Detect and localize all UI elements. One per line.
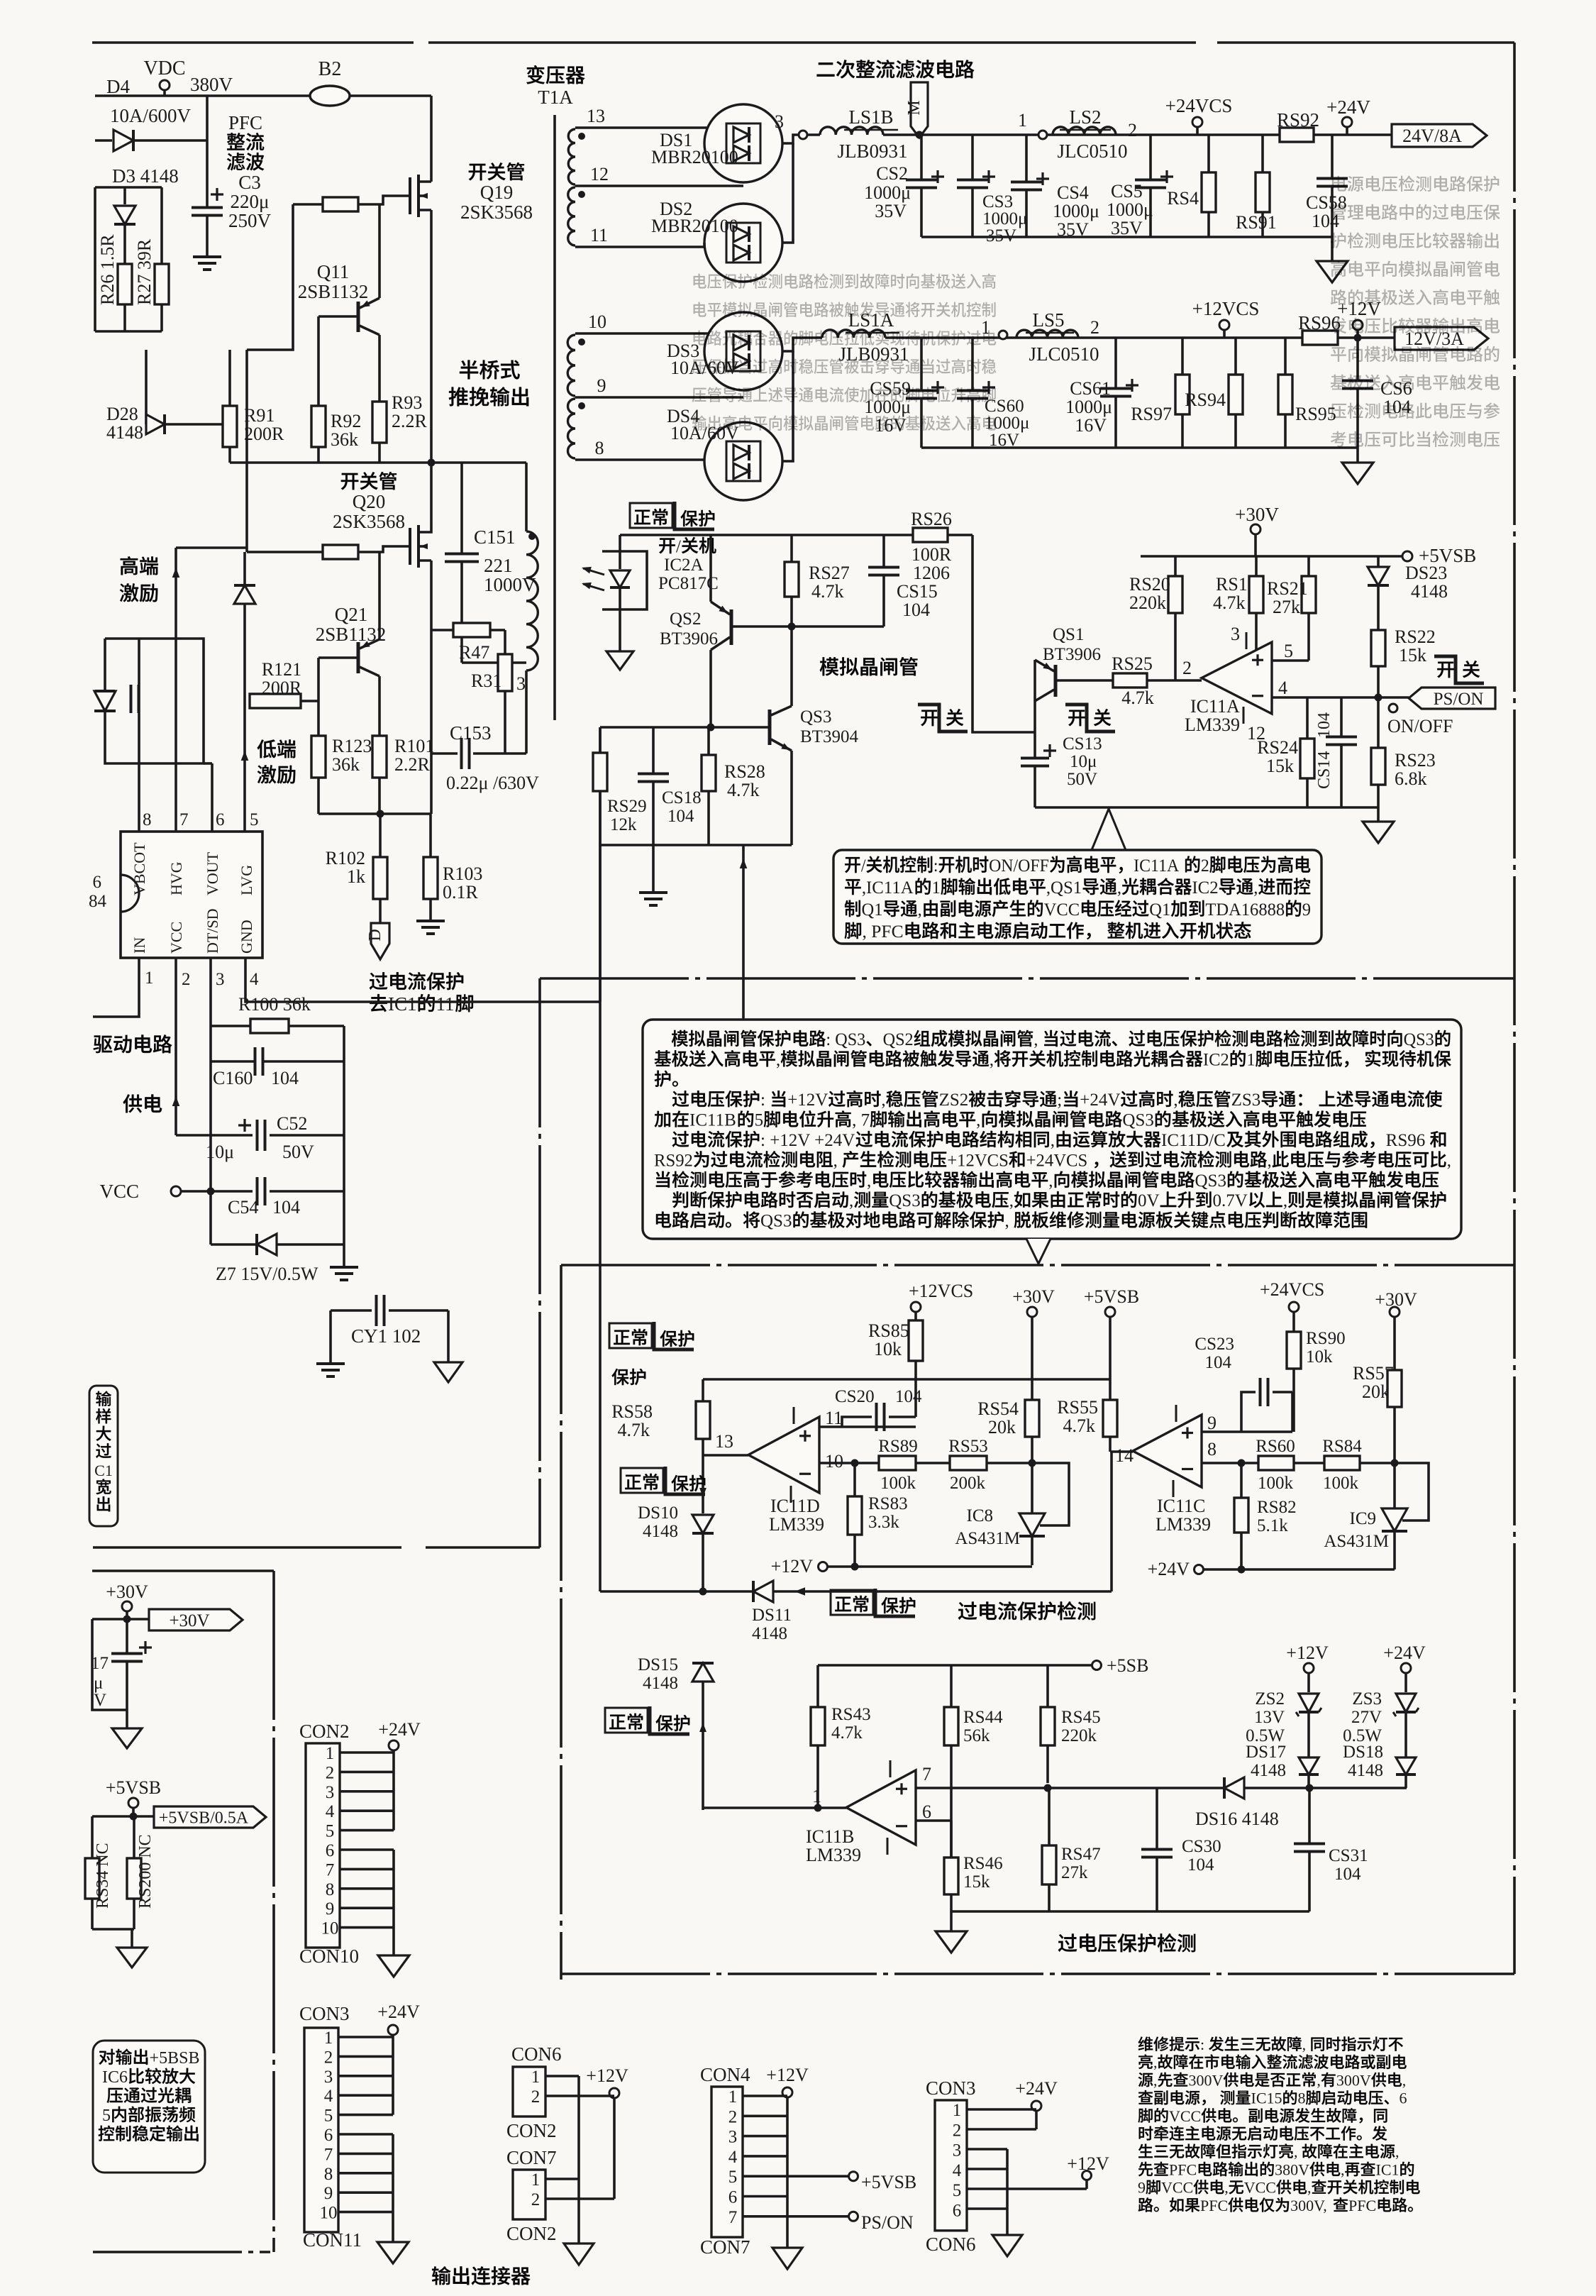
svg-text:RS90: RS90 [1306,1329,1346,1348]
svg-text:IC8: IC8 [967,1506,994,1525]
wire 12V rail [885,336,1302,339]
wire emitter bottoms [318,812,431,815]
svg-text:3: 3 [326,1783,335,1802]
svg-text:35V: 35V [875,201,907,221]
svg-text:5: 5 [102,2107,111,2125]
ground overvoltage row [950,1911,953,1931]
svg-text:27V: 27V [1351,1708,1382,1727]
svg-text:3: 3 [324,2068,333,2087]
svg-text:2: 2 [1201,856,1209,876]
flag PS/ON [1409,688,1495,709]
svg-text:R31: R31 [471,670,501,691]
svg-text:D4: D4 [106,76,130,97]
wire Q21 base [317,658,320,736]
ground CON6 bus [564,2243,594,2265]
terminal +30V 2 [1012,1286,1055,1307]
svg-text:5.1k: 5.1k [1257,1516,1288,1535]
svg-text:Q19: Q19 [480,182,514,203]
svg-text:RS1: RS1 [1216,574,1248,595]
svg-text:2: 2 [531,2087,541,2107]
svg-text:;: ; [1057,1091,1062,1110]
svg-text:104: 104 [667,807,694,826]
marker normal-protect 4 [831,1590,873,1615]
svg-text:TDA16888: TDA16888 [1205,900,1285,920]
svg-text:IC11C: IC11C [1157,1496,1205,1516]
svg-text:PFC: PFC [1348,2197,1376,2214]
svg-text:C52: C52 [277,1113,307,1134]
svg-text:4.7k: 4.7k [618,1420,650,1440]
inductor LS1A [822,330,885,338]
svg-text:1206: 1206 [913,563,950,583]
diode D28 [145,350,148,424]
svg-text:CS14: CS14 [1315,751,1334,789]
svg-text:9: 9 [324,2184,333,2203]
svg-text:2SK3568: 2SK3568 [460,202,533,223]
svg-text:1: 1 [953,2101,962,2120]
resistor RS24 15k [1306,697,1309,739]
svg-text:VCC: VCC [167,922,185,954]
resistor RS44 56k [950,1665,953,1707]
svg-text:JLB0931: JLB0931 [838,343,909,365]
wire pin11 with CS20 104 [819,1425,916,1428]
svg-text:VDC: VDC [143,57,185,79]
label D3 4148 [112,165,179,187]
svg-text:MBR20100: MBR20100 [651,147,738,167]
node Q19 source junction [430,219,433,523]
transistor Q20 2SK3568 MOSFET [419,523,431,532]
svg-text:10: 10 [320,2204,338,2223]
svg-text:PC817C: PC817C [658,574,719,593]
note box on/off control [1092,809,1126,850]
svg-text:6: 6 [1400,2090,1407,2107]
note repair hints [1138,2036,1403,2053]
marker normal-protect 5 [605,1708,648,1733]
svg-text:4.7k: 4.7k [1063,1415,1096,1436]
svg-text:PS/ON: PS/ON [861,2212,914,2233]
ghost bleedthrough right [692,176,1500,448]
node 1 terminal 24V [1018,110,1027,131]
svg-text:QS3: QS3 [800,707,831,727]
svg-text:24V/8A: 24V/8A [1402,126,1462,146]
ground 12V rail [1356,448,1359,463]
svg-text:Z7 15V/0.5W: Z7 15V/0.5W [216,1264,318,1284]
svg-text:100k: 100k [880,1474,916,1493]
svg-text:9: 9 [1138,2179,1146,2197]
svg-text:2.2R: 2.2R [392,411,428,431]
svg-text:,: , [833,1151,838,1170]
svg-text:IC11D/C: IC11D/C [1161,1131,1226,1150]
svg-text:250V: 250V [228,210,272,231]
svg-text:,: , [976,1111,980,1130]
wire right collector bus [343,1026,345,1266]
inductor LS1B [807,133,820,136]
wire protect rail [703,1378,1110,1381]
ground under R103 [416,920,445,922]
svg-text:104: 104 [1205,1353,1232,1372]
svg-text:VBCOT: VBCOT [131,842,148,895]
connector CON3/CON11 [299,2003,350,2024]
svg-text:4: 4 [326,1802,335,1821]
wire CON6 CON7 buses [545,2075,579,2077]
svg-text:5: 5 [250,810,259,829]
comparator IC11D LM339 [748,1417,819,1493]
svg-text:+12V: +12V [766,2065,809,2085]
capacitor C160 104 [211,1060,255,1063]
svg-text:104: 104 [272,1197,300,1218]
diode DS18 4148 [1396,1757,1416,1775]
svg-text:2: 2 [1090,317,1099,338]
capacitor CS14 104 [1340,697,1343,736]
diode D4 [95,139,112,142]
pin name DT/SD [204,908,221,954]
pin name VOUT [204,851,221,895]
svg-text:AS431M: AS431M [1324,1532,1389,1551]
pin 2 label [182,970,191,989]
terminal +12V [1337,298,1381,319]
svg-text:+12V: +12V [1286,1643,1329,1663]
svg-text:+30V: +30V [1235,504,1279,525]
capacitor CS13 [1033,757,1036,760]
wire trigger arrow to note box [742,845,745,1020]
svg-text:CON6: CON6 [511,2043,562,2065]
svg-text:CS23: CS23 [1195,1335,1234,1354]
svg-text:R91: R91 [244,405,275,426]
connector CON7 small [506,2147,557,2168]
svg-text:+5VSB: +5VSB [1084,1286,1139,1307]
resistor R27 [160,187,163,264]
resistor RS85 10k [909,1320,923,1361]
wire pin6 VOUT [204,762,212,765]
label high-side drive [121,556,158,575]
pin name LVG [238,865,255,895]
svg-text:380V: 380V [190,74,233,95]
svg-text:,: , [1402,2071,1407,2089]
svg-text:+5BSB: +5BSB [150,2049,200,2068]
svg-text:LS2: LS2 [1069,106,1101,128]
resistor RS82 5.1k [1240,1463,1243,1498]
svg-text:6: 6 [324,2126,333,2145]
capacitor in loop [130,685,133,713]
svg-text:LM339: LM339 [1156,1514,1211,1535]
svg-text:DS10: DS10 [638,1503,678,1523]
svg-text:CS3: CS3 [982,192,1013,211]
svg-text:+24V: +24V [1148,1559,1190,1579]
transistor Q11 2SB1132 [357,302,360,332]
svg-text:3: 3 [1231,624,1240,644]
svg-text:CS31: CS31 [1329,1846,1368,1865]
svg-text:1: 1 [531,2068,541,2087]
terminal +5VSB 2 [1084,1286,1139,1307]
svg-text:50V: 50V [282,1142,314,1162]
svg-text:36k: 36k [332,754,360,775]
svg-text:,: , [1224,2179,1229,2197]
wire +5SB row [818,1664,1092,1667]
svg-text:CS2: CS2 [876,163,908,184]
svg-text:104: 104 [1187,1855,1214,1875]
switch waveform icon 2 [1065,705,1115,732]
connector CON3/CON6 6pin [926,2077,976,2099]
shunt regulator IC8 AS431M [1029,1459,1036,1467]
svg-text:CON11: CON11 [303,2229,362,2251]
svg-text:Q1: Q1 [862,900,883,920]
svg-text:4148: 4148 [1251,1761,1286,1780]
svg-text:1000μ: 1000μ [1065,397,1112,417]
svg-text:1: 1 [931,878,940,898]
svg-text::: : [760,1091,765,1110]
svg-text:RS97: RS97 [1131,404,1172,424]
svg-text:+24V: +24V [377,2002,420,2022]
svg-text:15k: 15k [1266,756,1294,776]
terminal +5VSB 3 [106,1777,161,1798]
svg-text:Q11: Q11 [317,261,350,282]
svg-text:8: 8 [326,1880,335,1899]
wire CON3 lower pins to ground [967,2148,1007,2151]
wire QS3 line down to protection [599,845,602,1591]
svg-text:10μ: 10μ [206,1142,234,1162]
svg-text:,: , [1447,1151,1451,1170]
resistor RS90 10k [1260,1279,1324,1300]
svg-text:9: 9 [1207,1413,1217,1433]
svg-text:,: , [867,1171,871,1191]
svg-text:4.7k: 4.7k [1213,592,1246,613]
svg-text:2SK3568: 2SK3568 [333,511,405,532]
svg-text:,: , [1153,2053,1158,2071]
svg-text:DS17: DS17 [1246,1743,1286,1762]
wire pin4 riser to QS3 wire [599,727,602,1002]
wire bottom of gate resistors [230,461,431,464]
svg-text:RS26: RS26 [911,509,952,529]
ground CON3 6pin [992,2235,1022,2256]
svg-text:RS29: RS29 [607,797,647,816]
svg-text:,: , [1048,1171,1053,1191]
svg-text:CON6: CON6 [926,2234,976,2255]
pin 1 label [145,968,154,988]
capacitor CY1 102 [331,1309,372,1312]
resistor R100 36k [238,994,311,1015]
svg-text:,: , [881,1091,885,1110]
svg-text:/: / [861,856,866,876]
svg-text:RS24: RS24 [1257,737,1298,758]
connector CON2/CON10 [299,1721,350,1742]
svg-text:D: D [366,929,384,941]
switch waveform icon 1 [918,705,968,732]
svg-text:IC11B: IC11B [806,1826,854,1847]
svg-text:HVG: HVG [167,861,185,895]
secondary winding 12-11 [575,184,638,187]
node 3 terminal [799,131,807,139]
svg-text:VOUT: VOUT [204,851,221,895]
wire RS34 bottom row [92,1928,134,1931]
svg-text:MBR20100: MBR20100 [651,216,738,236]
wire DS outputs to node 3 [782,135,798,143]
svg-text:QS3: QS3 [1195,1171,1226,1191]
svg-text:6: 6 [93,873,102,892]
svg-text:104: 104 [902,600,930,620]
svg-text:10μ: 10μ [1070,752,1097,771]
svg-text:2: 2 [1182,658,1192,678]
svg-text:DS11: DS11 [752,1606,792,1625]
capacitor CS31 104 [1308,1788,1311,1843]
svg-text:RS21: RS21 [1267,578,1308,599]
wire pin7 HVG up with arrow [174,548,177,832]
svg-text:ZS2: ZS2 [939,1091,969,1110]
pin 4 label [250,970,259,989]
wire QS3 bottom rail [600,844,792,846]
svg-text:8: 8 [143,810,152,829]
pin name IN [131,937,148,954]
svg-text:7: 7 [179,810,189,829]
svg-text:380V: 380V [1275,2160,1309,2178]
svg-text:2: 2 [953,2121,962,2140]
svg-text:CON2: CON2 [506,2120,557,2141]
svg-text:+24V: +24V [1080,1091,1120,1110]
wire pin10 row [819,1462,855,1464]
wire Q11 base to R92 [317,316,320,406]
svg-text:1: 1 [326,1744,335,1763]
label overvoltage protect detect [1058,1933,1195,1952]
svg-text:M: M [905,100,924,115]
svg-text:5: 5 [755,1111,764,1130]
svg-text:,: , [1009,1191,1014,1210]
svg-text:6: 6 [953,2202,962,2221]
svg-text:10: 10 [321,1919,339,1938]
svg-text:10A/600V: 10A/600V [110,105,192,126]
svg-text:RS92: RS92 [1277,109,1319,131]
diode DS10 4148 [692,1515,714,1533]
svg-text:VCC: VCC [1161,2179,1193,2197]
svg-text:R102: R102 [326,848,365,868]
svg-text:,: , [990,1050,994,1069]
svg-text:/: / [676,537,681,556]
svg-text:3: 3 [728,2128,738,2147]
svg-text:4148: 4148 [106,422,143,443]
comparator IC11A LM339 [1202,642,1272,714]
label D4 [106,76,130,97]
svg-text:6: 6 [326,1841,335,1860]
svg-text:D28: D28 [106,404,138,424]
resistor RS84 100k [1324,1456,1360,1470]
svg-text:,: , [1294,2143,1298,2160]
capacitor CS15 104 [882,535,885,567]
svg-text:4.7k: 4.7k [1121,688,1154,708]
svg-text:3: 3 [775,111,784,132]
flag +30V [149,1609,243,1630]
svg-text:104: 104 [895,1387,922,1406]
wire C151 bottom [462,661,526,664]
svg-text:5: 5 [728,2168,738,2187]
wire pin8 row [1202,1462,1241,1464]
svg-text:PFC: PFC [228,112,262,133]
svg-text:RS53: RS53 [948,1437,988,1456]
svg-text:,: , [849,1191,853,1210]
node 1 terminal 12V [981,317,990,338]
wire pin1 to drive circuit [93,958,139,1017]
svg-text:QS2: QS2 [883,1030,914,1049]
thyristor clamp in loop [94,691,116,711]
svg-text:Q1: Q1 [1149,900,1170,920]
svg-text:CON3: CON3 [299,2003,350,2024]
wire D3 loop [95,186,162,189]
shunt regulator IC9 AS431M [1391,1459,1399,1467]
svg-text:BT3906: BT3906 [660,629,718,648]
svg-text:10k: 10k [1306,1347,1333,1367]
capacitor C151 [460,463,463,553]
terminal +5VSB [1402,551,1412,561]
svg-text:RS25: RS25 [1112,653,1153,674]
svg-text:VCC: VCC [99,1181,139,1202]
svg-text:R121: R121 [262,659,301,680]
svg-text:CS4: CS4 [1057,182,1089,203]
svg-text:10: 10 [825,1451,843,1472]
svg-text:CON10: CON10 [299,1945,359,1967]
svg-text:R47: R47 [459,642,489,663]
svg-text:+12V: +12V [771,1556,814,1577]
svg-text:CS61: CS61 [1070,378,1111,399]
svg-text:7: 7 [324,2145,333,2164]
svg-text:11: 11 [436,993,455,1015]
svg-text:20k: 20k [988,1417,1016,1437]
svg-text:, PFC: , PFC [863,921,904,942]
svg-text:12: 12 [590,164,609,184]
svg-text:, 7: , 7 [852,1111,870,1130]
svg-text:CS30: CS30 [1182,1837,1221,1856]
resistor R101 [372,736,387,778]
ground under C3 [193,255,221,258]
svg-text:4: 4 [324,2087,333,2106]
svg-text:11: 11 [590,225,608,245]
svg-text:IC1: IC1 [1376,2160,1400,2178]
diode DS15 4148 [692,1663,714,1682]
svg-text:,: , [1283,1191,1287,1210]
svg-text:220μ: 220μ [231,191,270,212]
svg-text:1: 1 [1246,1050,1255,1069]
svg-text:CON7: CON7 [700,2236,750,2258]
output flag 12V/3A [1395,327,1488,350]
svg-text:4: 4 [953,2161,962,2180]
svg-text::: : [1200,2036,1204,2053]
svg-text:,: , [1051,1131,1055,1150]
svg-text:+5VSB: +5VSB [106,1777,161,1798]
svg-text:: QS3: : QS3 [826,1030,865,1049]
svg-text:8: 8 [324,2165,333,2184]
resistor RS91 [1261,135,1264,172]
svg-text:RS47: RS47 [1061,1845,1101,1864]
note box output compare [93,2041,205,2173]
svg-text:9: 9 [326,1899,335,1919]
svg-text:1: 1 [1018,110,1027,131]
svg-text:20k: 20k [1362,1381,1390,1402]
svg-text:2: 2 [326,1763,335,1782]
svg-text:RS20: RS20 [1129,574,1170,595]
resistor RS94 [1234,338,1237,375]
svg-text:4148: 4148 [1348,1761,1383,1780]
border chain horizontal y1379 [540,977,1514,980]
svg-text:RS45: RS45 [1061,1708,1101,1727]
svg-text:104: 104 [271,1068,299,1088]
svg-text:AS431M: AS431M [955,1529,1020,1548]
svg-text:VCC: VCC [1244,2179,1276,2197]
svg-text:+30V: +30V [1012,1286,1055,1307]
svg-text:300V,: 300V, [1290,2197,1327,2214]
switch waveform icon 3 [1434,656,1484,683]
wire Q20 gate resistor [358,546,410,552]
resistor RS46 15k [950,1821,953,1858]
svg-text:μ: μ [94,1674,103,1693]
svg-text:LM339: LM339 [806,1845,861,1865]
connector CON6 small [511,2043,562,2065]
wire standby rail [620,534,913,536]
svg-text:,: , [1307,2179,1312,2197]
